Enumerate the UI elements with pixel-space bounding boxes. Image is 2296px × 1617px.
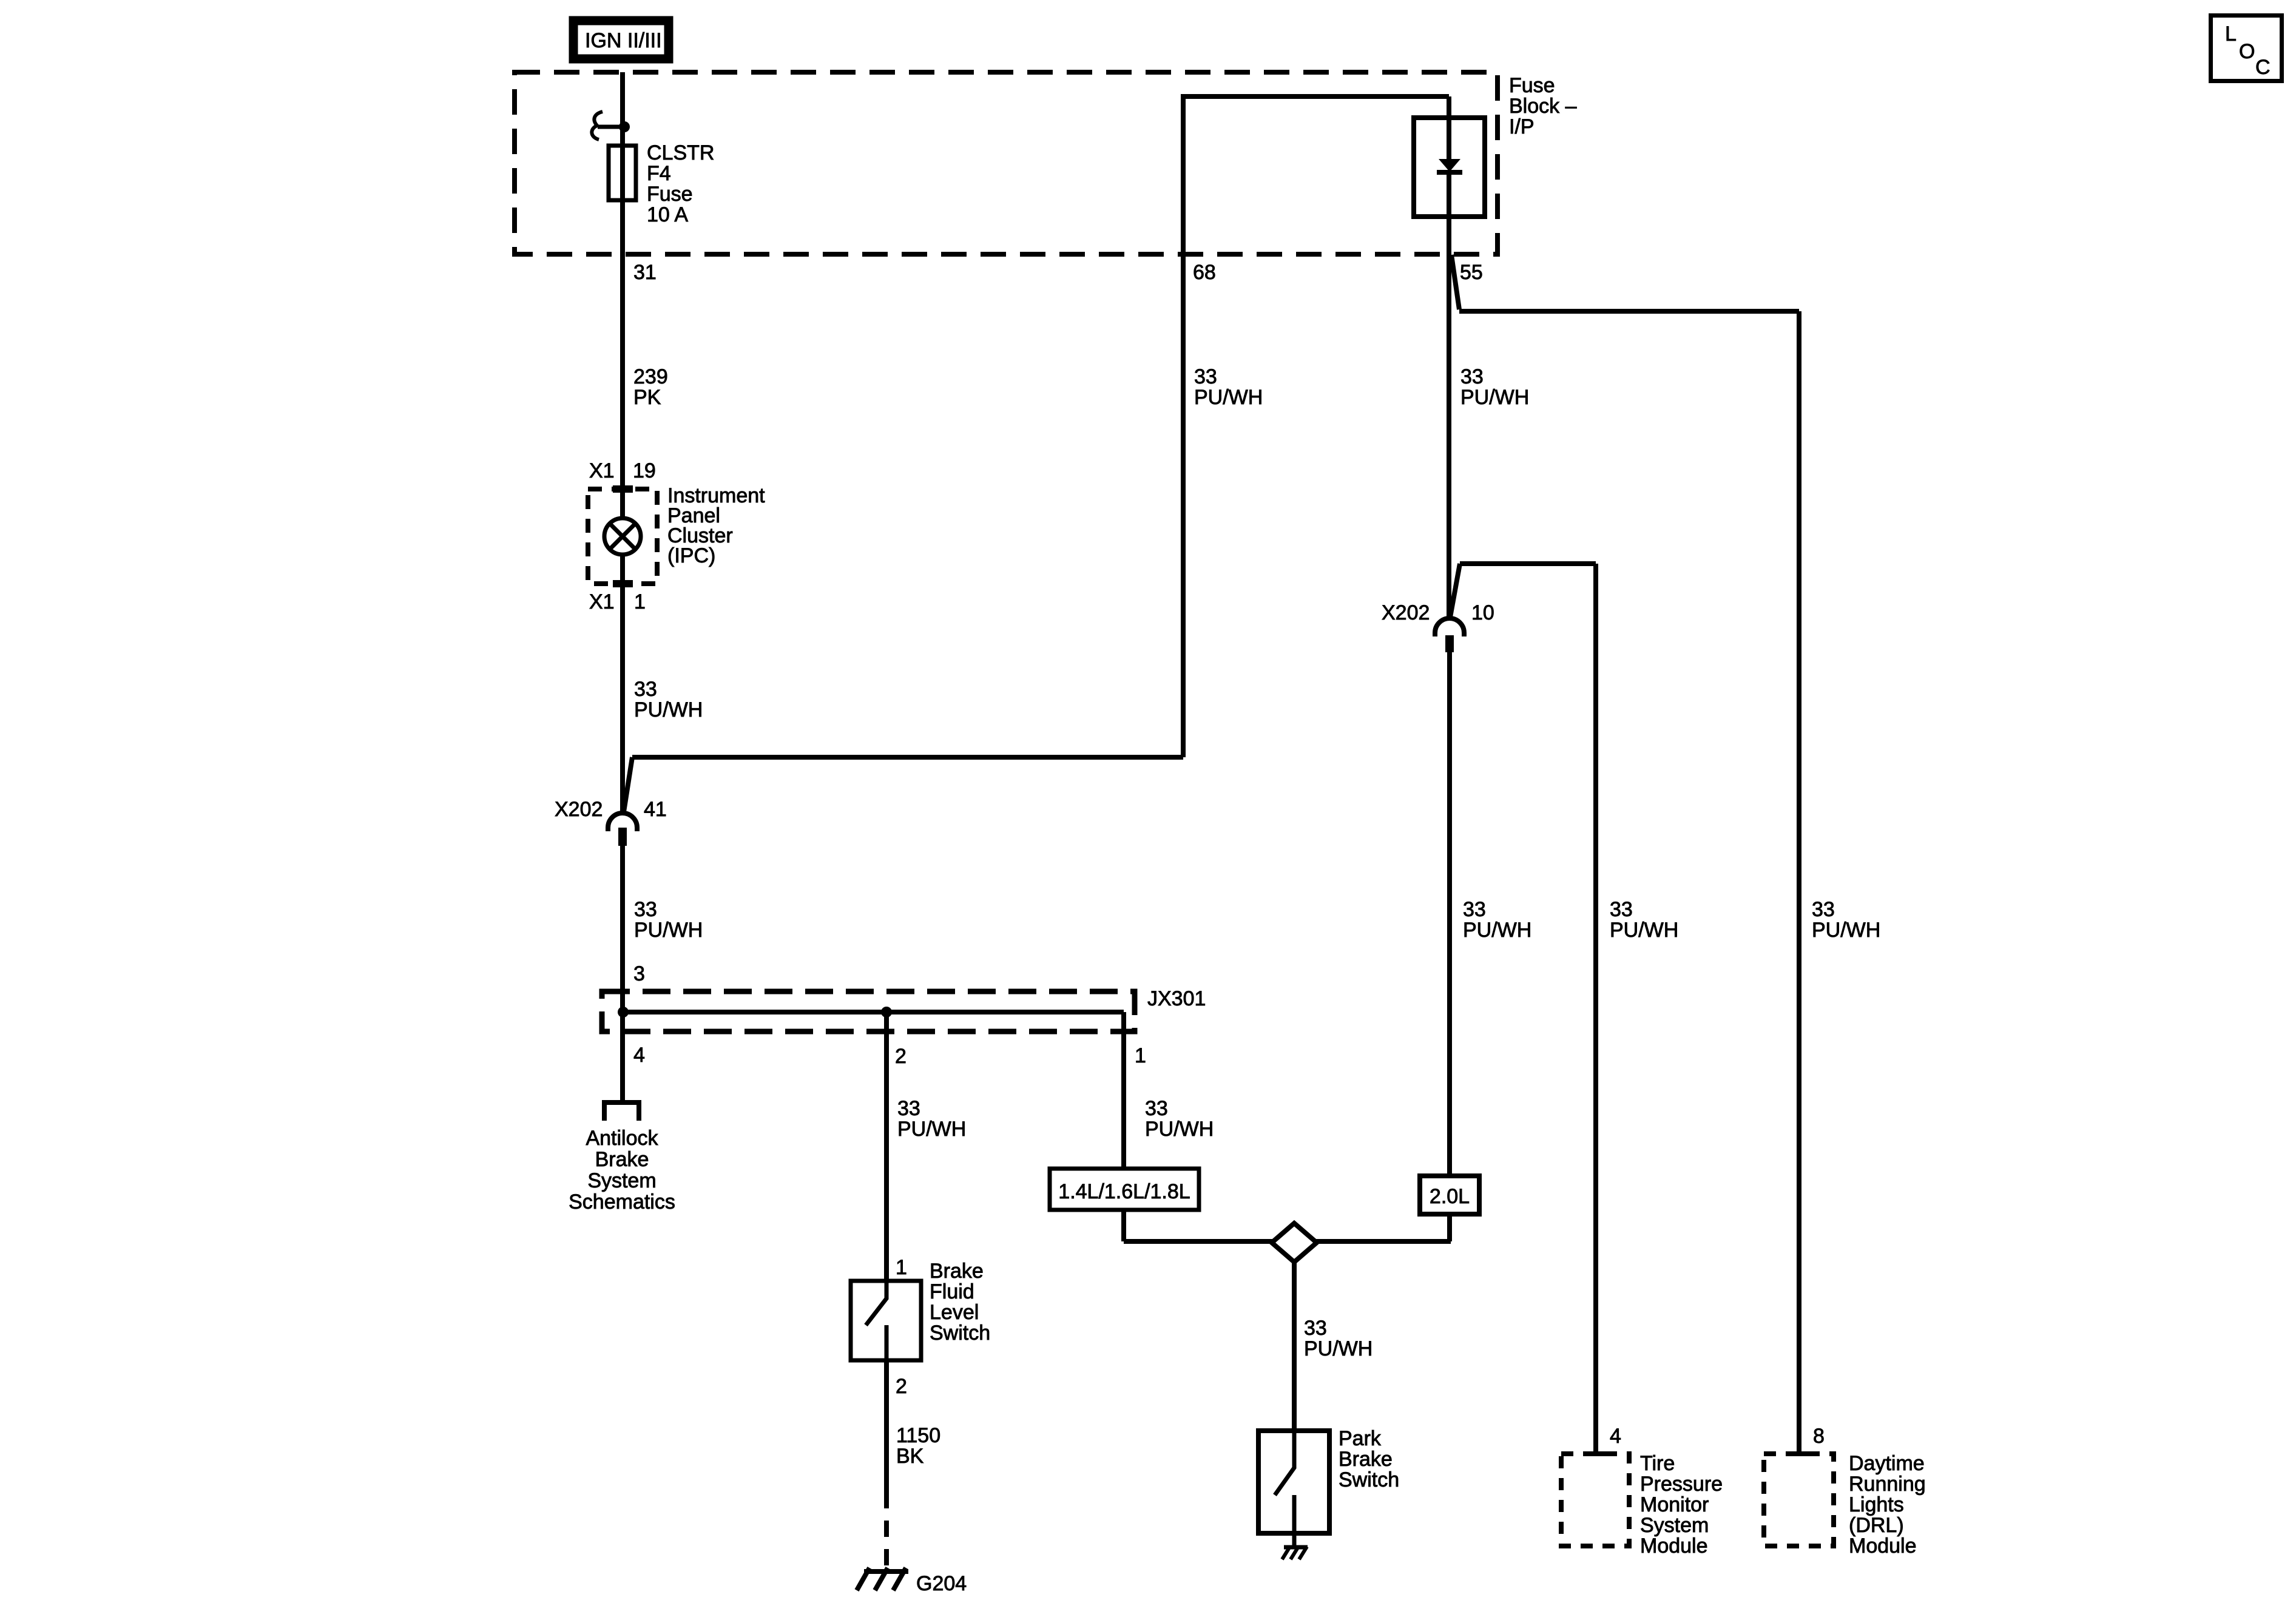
svg-text:Schematics: Schematics — [569, 1190, 675, 1214]
svg-text:1.4L/1.6L/1.8L: 1.4L/1.6L/1.8L — [1058, 1180, 1190, 1203]
svg-text:CLSTR: CLSTR — [647, 141, 714, 164]
svg-text:Fuse: Fuse — [647, 183, 693, 206]
svg-text:10: 10 — [1471, 601, 1494, 624]
svg-text:19: 19 — [633, 459, 656, 482]
svg-text:2: 2 — [895, 1045, 907, 1068]
svg-text:Pressure: Pressure — [1640, 1473, 1723, 1496]
svg-text:System: System — [587, 1169, 656, 1192]
svg-text:X1: X1 — [589, 590, 615, 613]
svg-text:1: 1 — [896, 1256, 907, 1279]
svg-text:C: C — [2255, 56, 2271, 79]
svg-text:33: 33 — [1194, 365, 1217, 388]
svg-text:PU/WH: PU/WH — [1463, 919, 1531, 942]
svg-text:PU/WH: PU/WH — [1304, 1337, 1373, 1360]
svg-text:1: 1 — [1135, 1044, 1146, 1067]
svg-text:Brake: Brake — [595, 1148, 649, 1171]
svg-text:Daytime: Daytime — [1849, 1452, 1925, 1475]
svg-text:Antilock: Antilock — [586, 1127, 658, 1150]
svg-text:PU/WH: PU/WH — [634, 919, 703, 942]
svg-text:4: 4 — [1610, 1425, 1621, 1448]
svg-text:2.0L: 2.0L — [1430, 1185, 1470, 1208]
svg-text:10 A: 10 A — [647, 203, 688, 226]
svg-text:F4: F4 — [647, 162, 671, 185]
svg-text:31: 31 — [633, 261, 657, 284]
svg-text:IGN II/III: IGN II/III — [585, 29, 662, 52]
svg-text:L: L — [2225, 22, 2237, 46]
svg-text:PU/WH: PU/WH — [1145, 1118, 1214, 1141]
svg-text:1150: 1150 — [896, 1424, 940, 1447]
svg-text:PU/WH: PU/WH — [897, 1118, 966, 1141]
svg-text:239: 239 — [633, 365, 668, 388]
svg-text:Switch: Switch — [930, 1322, 990, 1345]
svg-text:41: 41 — [644, 798, 667, 821]
svg-text:33: 33 — [1812, 898, 1835, 921]
svg-text:PU/WH: PU/WH — [1460, 386, 1529, 409]
svg-text:55: 55 — [1460, 261, 1483, 284]
svg-text:PU/WH: PU/WH — [1610, 919, 1678, 942]
svg-text:(DRL): (DRL) — [1849, 1514, 1904, 1537]
svg-text:O: O — [2239, 40, 2255, 63]
svg-text:X202: X202 — [555, 798, 603, 821]
svg-text:33: 33 — [897, 1097, 920, 1120]
svg-text:Module: Module — [1849, 1534, 1917, 1558]
svg-text:68: 68 — [1193, 261, 1216, 284]
svg-text:33: 33 — [1145, 1097, 1168, 1120]
svg-text:G204: G204 — [916, 1572, 967, 1595]
svg-text:33: 33 — [1610, 898, 1633, 921]
svg-text:33: 33 — [1460, 365, 1484, 388]
svg-text:Module: Module — [1640, 1534, 1708, 1558]
svg-text:33: 33 — [1304, 1317, 1327, 1340]
svg-text:PU/WH: PU/WH — [1194, 386, 1263, 409]
svg-text:2: 2 — [896, 1375, 907, 1398]
svg-text:33: 33 — [634, 898, 657, 921]
svg-text:Level: Level — [930, 1301, 979, 1324]
svg-text:PK: PK — [633, 386, 661, 409]
svg-text:Monitor: Monitor — [1640, 1493, 1709, 1516]
svg-text:1: 1 — [634, 590, 646, 613]
svg-text:JX301: JX301 — [1147, 987, 1206, 1010]
svg-text:33: 33 — [1463, 898, 1486, 921]
svg-text:X202: X202 — [1382, 601, 1430, 624]
svg-text:I/P: I/P — [1509, 115, 1535, 138]
svg-text:Brake: Brake — [1339, 1448, 1393, 1471]
svg-text:BK: BK — [896, 1445, 924, 1468]
svg-text:Tire: Tire — [1640, 1452, 1675, 1475]
svg-text:Running: Running — [1849, 1473, 1926, 1496]
svg-text:X1: X1 — [589, 459, 615, 482]
svg-text:Lights: Lights — [1849, 1493, 1904, 1516]
svg-text:8: 8 — [1813, 1425, 1825, 1448]
svg-text:(IPC): (IPC) — [667, 544, 715, 567]
svg-text:PU/WH: PU/WH — [1812, 919, 1880, 942]
svg-text:33: 33 — [634, 678, 657, 701]
svg-text:System: System — [1640, 1514, 1709, 1537]
svg-text:Brake: Brake — [930, 1260, 984, 1283]
svg-text:Fuse: Fuse — [1509, 74, 1555, 97]
svg-text:Park: Park — [1339, 1427, 1382, 1450]
svg-text:Block –: Block – — [1509, 95, 1577, 118]
svg-text:PU/WH: PU/WH — [634, 698, 703, 721]
svg-text:Fluid: Fluid — [930, 1280, 974, 1303]
svg-text:Switch: Switch — [1339, 1468, 1399, 1491]
svg-text:3: 3 — [633, 962, 645, 985]
svg-text:4: 4 — [633, 1044, 645, 1067]
